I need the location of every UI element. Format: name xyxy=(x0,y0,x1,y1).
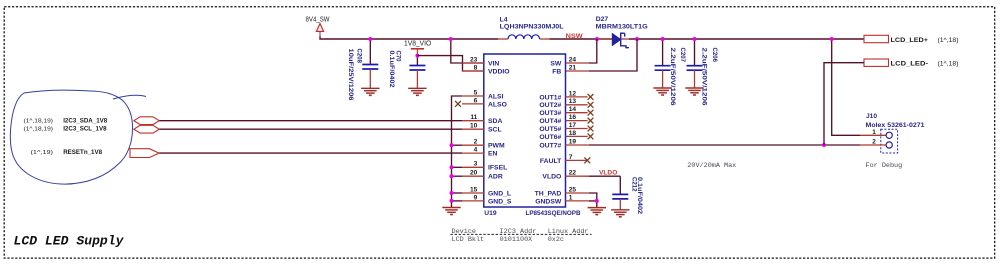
svg-text:OUT6#: OUT6# xyxy=(539,134,561,141)
junction LED+/J10 xyxy=(830,37,834,41)
wire LCD_LED- to net xyxy=(824,63,864,145)
wire RESETn_1V8 to EN xyxy=(159,152,462,154)
svg-text:LCD_LED-: LCD_LED- xyxy=(891,61,929,68)
junction rail/ADR xyxy=(450,174,454,178)
svg-text:19: 19 xyxy=(569,138,577,145)
svg-text:IFSEL: IFSEL xyxy=(488,165,507,172)
svg-text:OUT4#: OUT4# xyxy=(539,118,561,125)
svg-text:J10: J10 xyxy=(866,113,877,120)
wire D27 cathode to LCD_LED+ xyxy=(629,38,864,40)
svg-text:OUT7#: OUT7# xyxy=(539,142,561,149)
svg-text:20V/20mA Max: 20V/20mA Max xyxy=(687,162,736,170)
svg-text:SDA: SDA xyxy=(488,118,502,125)
wire LED+ to J10 pin1 xyxy=(832,39,860,135)
offpage connector RESETn_1V8 xyxy=(130,149,159,158)
svg-text:GNDSW: GNDSW xyxy=(535,198,562,205)
capacitor C212 xyxy=(619,176,621,194)
svg-text:13: 13 xyxy=(569,98,577,105)
svg-text:ALSO: ALSO xyxy=(488,101,507,108)
svg-text:NSW: NSW xyxy=(566,33,584,40)
wire TH_PAD to GNDSW xyxy=(589,193,597,201)
no-connect OUT3# xyxy=(588,110,594,116)
svg-text:0x2c: 0x2c xyxy=(548,236,564,244)
svg-text:ALSI: ALSI xyxy=(488,93,504,100)
svg-text:LCD_LED+: LCD_LED+ xyxy=(891,37,929,44)
junction VIN/top xyxy=(449,37,453,41)
svg-text:I2C3_SCL_1V8: I2C3_SCL_1V8 xyxy=(63,126,107,133)
svg-text:ADR: ADR xyxy=(488,174,503,181)
svg-text:VLDO: VLDO xyxy=(542,174,561,181)
svg-text:GND_L: GND_L xyxy=(488,190,511,197)
svg-text:0.1uF/0402: 0.1uF/0402 xyxy=(636,177,643,214)
svg-text:LP8543SQE/NOPB: LP8543SQE/NOPB xyxy=(526,210,581,217)
capacitor C70 xyxy=(416,56,418,66)
wire NSW net (L4 to D27) xyxy=(549,38,612,40)
wire FB xyxy=(589,39,637,71)
svg-text:(1^,18): (1^,18) xyxy=(938,61,959,68)
no-connect OUT4# xyxy=(588,118,594,124)
junction C207/top xyxy=(661,37,665,41)
junction C208/top xyxy=(368,37,372,41)
no-connect ALSO xyxy=(455,101,461,107)
junction rail/GND_S xyxy=(450,199,454,203)
cloud bubble (hand-drawn) xyxy=(10,90,132,184)
junction rail/IFSEL xyxy=(450,165,454,169)
capacitor C208 xyxy=(369,39,371,64)
svg-text:21: 21 xyxy=(569,64,577,71)
ground C70 xyxy=(408,87,426,89)
no-connect OUT2# xyxy=(588,102,594,108)
svg-text:LCD Bklt: LCD Bklt xyxy=(452,236,485,244)
svg-text:FAULT: FAULT xyxy=(540,158,562,165)
op-amp U1 -- IC U19 LP8543SQE/NOPB body xyxy=(484,54,566,207)
svg-text:SW: SW xyxy=(550,60,562,67)
svg-text:U19: U19 xyxy=(484,210,497,217)
cloud curl xyxy=(113,95,146,99)
svg-text:(1^,18): (1^,18) xyxy=(938,37,959,44)
junction C206/top xyxy=(693,37,697,41)
svg-text:EN: EN xyxy=(488,151,498,158)
svg-text:VDDIO: VDDIO xyxy=(488,68,510,75)
svg-text:C208: C208 xyxy=(355,49,362,64)
svg-text:25: 25 xyxy=(569,186,577,193)
svg-text:8V4_SW: 8V4_SW xyxy=(306,16,330,23)
svg-text:10uF/25V/1206: 10uF/25V/1206 xyxy=(347,49,354,101)
svg-text:(1^,18,19): (1^,18,19) xyxy=(24,118,54,124)
wire ALSI/PWM/IFSEL/ADR/GND rail xyxy=(452,96,463,207)
svg-text:(1^,18,19): (1^,18,19) xyxy=(24,127,54,133)
offpage connector I2C3_SDA_1V8 xyxy=(134,117,159,125)
svg-text:24: 24 xyxy=(569,56,577,63)
offpage connector LCD_LED- xyxy=(864,59,889,66)
wire GNDSW xyxy=(589,201,597,207)
svg-text:OUT3#: OUT3# xyxy=(539,110,561,117)
ground C208 xyxy=(361,87,379,89)
capacitor C207 xyxy=(662,39,664,66)
svg-text:D27: D27 xyxy=(596,16,609,23)
svg-text:SCL: SCL xyxy=(488,127,502,134)
ground C207 xyxy=(653,87,671,89)
svg-text:4: 4 xyxy=(474,147,478,154)
svg-text:C207: C207 xyxy=(679,48,686,63)
no-connect OUT5# xyxy=(588,126,594,132)
junction D27 anode / SW xyxy=(595,37,599,41)
svg-text:LCD LED Supply: LCD LED Supply xyxy=(14,234,125,249)
svg-text:C206: C206 xyxy=(711,48,718,63)
svg-text:MBRM130LT1G: MBRM130LT1G xyxy=(596,24,648,31)
svg-text:2.2uF/50V/1206: 2.2uF/50V/1206 xyxy=(669,48,676,106)
wire OUT7# net to J10 pin2 xyxy=(589,144,860,146)
svg-text:0.1uF/0402: 0.1uF/0402 xyxy=(388,51,395,88)
no-connect OUT6# xyxy=(588,134,594,140)
svg-text:3: 3 xyxy=(474,161,478,168)
svg-text:OUT1#: OUT1# xyxy=(539,94,561,101)
svg-text:OUT2#: OUT2# xyxy=(539,102,561,109)
svg-text:1V8_VIO: 1V8_VIO xyxy=(404,40,432,47)
junction LED-/OUT7 net xyxy=(822,143,826,147)
junction C70/VDDIO xyxy=(415,54,419,58)
svg-text:VLDO: VLDO xyxy=(599,169,617,176)
offpage connector LCD_LED+ xyxy=(864,35,889,42)
svg-text:(1^,19): (1^,19) xyxy=(31,150,54,156)
wire SW xyxy=(589,39,597,63)
svg-text:For Debug: For Debug xyxy=(866,162,903,170)
svg-text:0101100X: 0101100X xyxy=(500,236,533,244)
junction GNDSW xyxy=(595,199,599,203)
wire VLDO xyxy=(589,175,620,177)
no-connect OUT1# xyxy=(588,94,594,100)
no-connect FAULT xyxy=(584,158,590,164)
ground GNDSW xyxy=(588,207,606,209)
svg-text:VIN: VIN xyxy=(488,60,499,67)
wire VIN xyxy=(451,39,484,63)
junction D27 cathode / FB xyxy=(635,37,639,41)
capacitor C206 xyxy=(694,39,696,66)
svg-text:LQH3NPN330MJ0L: LQH3NPN330MJ0L xyxy=(500,24,564,31)
offpage connector I2C3_SCL_1V8 xyxy=(134,125,159,133)
svg-text:TH_PAD: TH_PAD xyxy=(535,190,562,197)
ground C212 xyxy=(611,209,629,211)
svg-text:15: 15 xyxy=(470,186,478,193)
svg-text:PWM: PWM xyxy=(488,143,505,150)
ground left rail xyxy=(442,207,460,209)
wire I2C3_SDA_1V8 xyxy=(159,120,462,122)
svg-text:RESETn_1V8: RESETn_1V8 xyxy=(63,149,102,156)
ground C206 xyxy=(685,87,703,89)
svg-text:L4: L4 xyxy=(500,16,508,23)
svg-text:FB: FB xyxy=(552,68,561,75)
svg-text:2.2uF/50V/1206: 2.2uF/50V/1206 xyxy=(700,48,707,106)
wire VDDIO xyxy=(417,56,483,71)
junction rail/GND_L xyxy=(450,191,454,195)
svg-text:OUT5#: OUT5# xyxy=(539,126,561,133)
svg-text:GND_S: GND_S xyxy=(488,198,512,205)
svg-text:C70: C70 xyxy=(395,51,402,62)
wire I2C3_SCL_1V8 xyxy=(159,128,462,130)
wire 8V4_SW net (top rail) xyxy=(320,37,498,40)
svg-text:I2C3_SDA_1V8: I2C3_SDA_1V8 xyxy=(63,117,108,124)
junction rail/PWM xyxy=(450,143,454,147)
